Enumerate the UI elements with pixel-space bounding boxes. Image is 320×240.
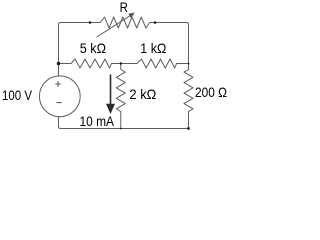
- svg-text:1 kΩ: 1 kΩ: [140, 41, 166, 56]
- resistor 5 kΩ zigzag: [71, 59, 112, 68]
- svg-text:200 Ω: 200 Ω: [195, 85, 227, 100]
- arrow on R (variable resistor arrow): [97, 13, 134, 37]
- node: junction dot bottom-right corner: [187, 127, 190, 130]
- wire: middle horizontal left stub: [59, 63, 72, 65]
- voltage source V1 circle: [39, 76, 80, 117]
- svg-text:100 V: 100 V: [2, 88, 33, 103]
- node: junction dot middle wire / right vertical: [188, 63, 190, 65]
- svg-text:10 mA: 10 mA: [80, 114, 115, 129]
- wire: top wire right segment + top-right corner + right vertical upper: [150, 23, 189, 64]
- resistor 2 kΩ branch: top lead, zigzag, bottom lead: [116, 64, 125, 129]
- node: junction dot middle wire / 2k branch top: [120, 62, 122, 64]
- voltage source minus sign: [57, 102, 61, 104]
- svg-text:R: R: [120, 0, 128, 15]
- node: junction dot left vertical / middle wire: [57, 62, 60, 65]
- wire: right vertical between middle node and 200 ohm: [188, 64, 190, 70]
- resistor R (variable) zigzag: [100, 17, 149, 28]
- node: junction dot bottom wire / 2k branch bottom: [120, 128, 122, 130]
- wire: 200 ohm bottom lead: [188, 112, 190, 129]
- resistor 200 Ω zigzag (vertical): [184, 70, 193, 112]
- svg-text:2 kΩ: 2 kΩ: [129, 87, 156, 102]
- wire: left vertical + top-left corner + top wire left segment: [59, 23, 101, 77]
- wire: middle between 5k and 1k: [112, 63, 138, 65]
- wire: bottom wire with bottom-left corner from source: [59, 117, 189, 129]
- pin dot: R left terminal: [89, 21, 92, 24]
- resistor 1 kΩ zigzag: [137, 59, 177, 68]
- svg-text:5 kΩ: 5 kΩ: [80, 41, 106, 56]
- current arrow 10 mA (down): [107, 75, 114, 113]
- voltage source plus sign: [56, 82, 61, 87]
- pin dot: R right terminal: [154, 21, 157, 24]
- wire: middle right stub to right vertical: [177, 63, 189, 65]
